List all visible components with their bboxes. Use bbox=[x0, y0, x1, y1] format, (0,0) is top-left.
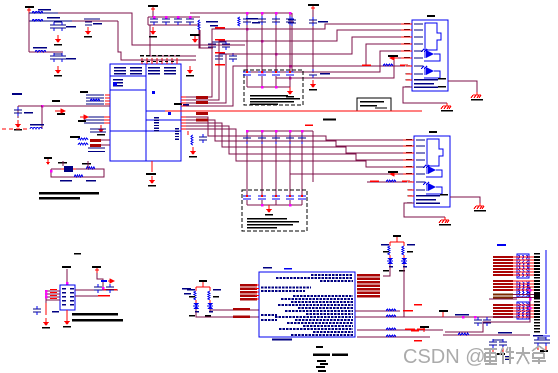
resistor R30 bbox=[458, 333, 469, 335]
esd diode J2-2 bbox=[423, 182, 442, 194]
label C5 bbox=[93, 23, 102, 25]
shield net text J1 bbox=[414, 79, 438, 81]
ground bbox=[97, 125, 105, 136]
capacitor grid2 bbox=[272, 135, 280, 144]
tvs diodes grid2 bbox=[243, 195, 251, 199]
net arrow bbox=[80, 115, 88, 119]
capacitor C32 bbox=[309, 69, 317, 78]
net label bbox=[305, 125, 313, 127]
label L5 bbox=[30, 124, 44, 126]
wire bbox=[312, 10, 314, 73]
wire bus A1 bbox=[181, 24, 412, 97]
wire bbox=[66, 269, 68, 285]
suppressor box 2 (dashed) bbox=[242, 190, 307, 231]
capacitor C5 bbox=[84, 19, 100, 25]
capacitor C4 bbox=[58, 53, 66, 62]
label U5 bottom edge bbox=[272, 339, 292, 341]
ferrite bead FB2 bbox=[90, 144, 101, 147]
led LED1 bbox=[401, 255, 407, 267]
resistor array zigzag bbox=[519, 303, 529, 318]
resistor R1 bbox=[238, 17, 240, 26]
net labels U5 right bbox=[357, 274, 380, 276]
wire bus A3 bbox=[181, 37, 412, 103]
label bbox=[252, 22, 260, 24]
net labels bus A bbox=[215, 27, 225, 29]
wire bbox=[54, 21, 62, 23]
ground J1 shield bbox=[471, 92, 483, 101]
termination net row bbox=[493, 262, 540, 264]
capacitor C20 bbox=[14, 107, 22, 116]
label bbox=[58, 162, 67, 164]
wire bus B2 bbox=[181, 120, 414, 146]
pin wires U1 left cluster D bbox=[88, 147, 105, 148]
label bbox=[183, 104, 189, 105]
capacitor C31 bbox=[288, 17, 296, 26]
note text box1 bbox=[250, 95, 288, 97]
pin name text U5 interior bbox=[311, 274, 353, 276]
capacitor C16 bbox=[215, 53, 223, 62]
wire bbox=[493, 339, 503, 341]
capacitor C40 bbox=[199, 134, 207, 143]
wire bbox=[72, 20, 118, 22]
wire bbox=[18, 105, 42, 107]
capacitor C62 bbox=[489, 339, 497, 348]
wire bbox=[97, 273, 103, 288]
ferrite bead FB1 bbox=[90, 139, 101, 142]
wire crystal loop bbox=[51, 169, 104, 177]
logic square U1c bbox=[168, 112, 171, 115]
wire U3 out2 bbox=[75, 295, 110, 297]
resistor LED2-R1 bbox=[194, 291, 196, 300]
wire bus A2 bbox=[181, 30, 412, 100]
capacitor C64 bbox=[534, 337, 542, 346]
label bbox=[323, 119, 336, 121]
wire grid2 rail bbox=[247, 130, 313, 132]
power label LED1 bbox=[393, 235, 401, 237]
net labels U3 left bbox=[50, 289, 57, 290]
net arrow bbox=[55, 109, 65, 113]
chassis ground U5 bbox=[313, 346, 348, 372]
pin labels J1 bbox=[404, 23, 410, 25]
wire LED2 left bbox=[196, 312, 251, 317]
wire J2 shield bbox=[450, 197, 480, 203]
resistor array zigzag bbox=[519, 282, 529, 296]
label L1 bbox=[38, 9, 51, 11]
labels LED1 bottom bbox=[389, 266, 393, 268]
inductor L3 bbox=[35, 51, 46, 53]
power flag VIN bbox=[25, 6, 34, 13]
inductor L1 bbox=[32, 12, 43, 14]
ground bbox=[42, 318, 50, 329]
inductor L5 bbox=[30, 128, 42, 130]
esd diode J2-1 bbox=[423, 165, 442, 177]
svg-text:CSDN @: CSDN @ bbox=[403, 346, 486, 368]
wire center tap bbox=[443, 334, 530, 336]
label bbox=[210, 25, 218, 27]
capacitor grid2 bbox=[286, 135, 294, 144]
ic U3 body bbox=[60, 285, 75, 310]
termination net row bbox=[493, 283, 540, 285]
label bbox=[438, 78, 446, 80]
ground bbox=[148, 176, 156, 187]
wire bbox=[150, 25, 196, 56]
wire bbox=[219, 53, 233, 55]
wire bbox=[41, 128, 43, 130]
net label bbox=[370, 181, 379, 183]
pin stubs U1 top bbox=[141, 58, 143, 64]
wire LED2 top bbox=[202, 282, 204, 287]
net stubs left bbox=[414, 304, 422, 306]
wire bus A6 bbox=[276, 58, 412, 78]
capacitor C14 bbox=[208, 41, 216, 50]
termination net row bbox=[493, 265, 540, 267]
label C3 bbox=[66, 58, 76, 60]
power flag U3b bbox=[92, 266, 101, 273]
power flag AVDD bbox=[190, 34, 200, 43]
ground arrow box2 bbox=[265, 205, 273, 216]
capacitor C11 bbox=[162, 16, 170, 25]
label bbox=[86, 180, 96, 182]
wire U5 right r3 bbox=[357, 329, 443, 331]
wire bus B3 bbox=[181, 123, 414, 153]
resistor R9 bbox=[74, 175, 83, 177]
wire tvs common bbox=[247, 86, 290, 88]
wire bbox=[63, 161, 88, 169]
wire net to U1 pin bbox=[42, 105, 110, 107]
net label bbox=[196, 101, 208, 104]
ground bbox=[63, 317, 71, 328]
wire bbox=[28, 13, 30, 52]
power label LED2 bbox=[199, 280, 207, 282]
wire grid1 top rail bbox=[190, 12, 290, 14]
capacitor grid2 bbox=[298, 135, 306, 144]
wire bus B4 bbox=[181, 126, 414, 160]
capacitor C10 bbox=[150, 16, 158, 25]
label L3 bbox=[33, 47, 47, 49]
resistor array RN1 body bbox=[517, 254, 529, 278]
pin name text U5 interior left rows bbox=[261, 288, 311, 292]
wire bus B1 bbox=[181, 117, 414, 140]
wire bbox=[29, 20, 72, 22]
connector J1 body bbox=[412, 20, 448, 91]
resistor R2 bbox=[198, 20, 200, 30]
wire bbox=[17, 106, 19, 118]
resistor R8 bbox=[86, 167, 95, 169]
label bbox=[388, 171, 398, 173]
capacitor C17 bbox=[229, 53, 237, 62]
capacitor grid bbox=[243, 16, 251, 25]
resistor LED2-R2 bbox=[208, 291, 210, 300]
stub bbox=[493, 348, 503, 352]
termination net row brown bbox=[493, 297, 540, 299]
note text U3 line2 bbox=[72, 319, 123, 321]
wire bbox=[148, 11, 213, 48]
wire U5 right r4 bbox=[357, 336, 430, 338]
net arrow bbox=[390, 172, 398, 176]
power flag XT bbox=[44, 157, 52, 165]
ground bbox=[189, 147, 197, 158]
resistor R7 bbox=[78, 143, 88, 145]
wire J1 shield bbox=[448, 81, 477, 92]
power flag VDD bbox=[148, 5, 158, 11]
wire bbox=[54, 53, 62, 55]
ground bbox=[14, 120, 22, 131]
pin wires U1 left cluster C bbox=[90, 128, 106, 129]
resistor array zigzag bbox=[519, 255, 529, 277]
pin wires U3 left bbox=[46, 291, 60, 303]
crystal Y1 bbox=[61, 166, 76, 172]
termination net row g3 bbox=[493, 304, 540, 306]
labels LED2 left bbox=[182, 288, 191, 290]
termination net row bbox=[493, 289, 540, 291]
label bbox=[388, 55, 398, 57]
label bbox=[533, 335, 543, 337]
connector J3 pin column bbox=[534, 253, 540, 254]
net label LED2b bbox=[233, 316, 250, 319]
shield net text J2 bbox=[416, 195, 440, 197]
capacitor grid bbox=[286, 16, 294, 25]
label bbox=[540, 350, 548, 352]
label bbox=[505, 356, 510, 360]
pin stub below U1 bbox=[151, 161, 153, 172]
termination net row brown bbox=[493, 294, 540, 296]
resistor array RN3 body bbox=[517, 302, 529, 319]
label bbox=[320, 73, 330, 75]
wire LED1 left bbox=[383, 267, 390, 276]
termination net row bbox=[493, 259, 540, 261]
label bbox=[438, 86, 446, 88]
resistor array RN2 body bbox=[517, 281, 529, 297]
esd diode J1-1 bbox=[421, 49, 440, 61]
capacitor C2 bbox=[58, 22, 66, 31]
pin stubs U1 right bus B bbox=[181, 117, 186, 118]
wire LED1 right bbox=[404, 267, 440, 317]
resistor R12 bbox=[191, 135, 193, 145]
wire U5 right r1 bbox=[355, 310, 400, 312]
label J1 bbox=[427, 15, 435, 17]
net labels U5 left bbox=[240, 284, 257, 286]
wire bus B6 bbox=[290, 173, 414, 175]
resistor R5 bbox=[90, 99, 100, 101]
label R2 bbox=[206, 21, 218, 23]
ground bbox=[309, 80, 317, 91]
wire tvs common 2 bbox=[247, 204, 302, 206]
label R1 bbox=[246, 18, 258, 20]
wire U5 right r2 bbox=[355, 316, 404, 318]
label U3 bbox=[52, 311, 59, 313]
resistor R20 bbox=[386, 309, 396, 311]
net label bbox=[362, 65, 371, 67]
termination net row bbox=[493, 268, 540, 270]
connector J3 body line2 bbox=[537, 335, 550, 337]
resistor R6 bbox=[78, 138, 88, 140]
wire bbox=[212, 41, 226, 43]
ground J2 shield bbox=[474, 203, 486, 212]
wire resistor net J2 bbox=[367, 181, 414, 183]
termination net row bbox=[493, 274, 540, 276]
ground bbox=[84, 27, 92, 38]
capacitor bbox=[483, 317, 491, 326]
capacitor C1 bbox=[50, 22, 58, 31]
net arrow U3 bbox=[101, 280, 107, 282]
wire bbox=[121, 59, 177, 61]
labels LED2 bbox=[187, 289, 195, 290]
termination net row bbox=[493, 286, 540, 288]
note text bbox=[360, 101, 384, 103]
led LED1 bbox=[387, 255, 393, 267]
capacitor C52 bbox=[106, 284, 114, 293]
note text box2 bbox=[247, 218, 287, 220]
ground bbox=[54, 66, 62, 77]
wire bbox=[251, 310, 259, 317]
logic square U1 bbox=[113, 82, 117, 86]
logic square U1b bbox=[152, 91, 155, 94]
net label bbox=[196, 96, 208, 99]
termination net row g3 bbox=[493, 316, 540, 318]
wire bbox=[58, 13, 245, 45]
termination net row bbox=[493, 271, 540, 273]
net labels right bbox=[403, 310, 413, 312]
wire bbox=[29, 12, 58, 14]
termination net row g3 bbox=[493, 310, 540, 312]
wire bus B5 bbox=[181, 129, 414, 167]
power stub bbox=[439, 310, 448, 317]
wire J1 gnd bbox=[403, 87, 447, 103]
led LED2 bbox=[207, 300, 213, 312]
pin marks U3 interior bbox=[62, 288, 66, 289]
resistor R22 bbox=[386, 328, 396, 330]
red net rail bbox=[165, 110, 422, 112]
net labels right2 bbox=[405, 329, 415, 331]
resistor LED1-R2 bbox=[402, 246, 404, 255]
wire blue stub bbox=[146, 110, 165, 112]
net stub dashed bbox=[2, 128, 30, 130]
termination net row g3 bbox=[493, 313, 540, 315]
pin stubs U1 right bus A bbox=[181, 97, 186, 98]
capacitor C3 bbox=[50, 53, 58, 62]
capacitor C50 bbox=[33, 306, 41, 315]
wire U3 out1 bbox=[75, 289, 118, 291]
wire magnetics center bbox=[440, 316, 517, 318]
note box bbox=[357, 98, 391, 111]
resistor R21 bbox=[386, 315, 396, 317]
label bbox=[70, 136, 80, 138]
ground J1 bbox=[441, 103, 453, 112]
pin labels J2 bbox=[406, 139, 412, 141]
capacitor grid bbox=[272, 16, 280, 25]
tvs diodes grid1 bbox=[243, 71, 251, 75]
pin number labels U1 top row2 bbox=[141, 61, 144, 62]
text block U1 core2 bbox=[175, 128, 179, 129]
label U5 bbox=[263, 267, 272, 269]
label bbox=[146, 173, 156, 175]
component bbox=[12, 93, 22, 95]
label J2 bbox=[429, 131, 437, 133]
label C1 bbox=[66, 26, 76, 28]
connector J3 body line bbox=[545, 250, 547, 334]
label bbox=[24, 112, 33, 114]
wire J3 a bbox=[445, 287, 530, 332]
wire bus A5 bbox=[247, 51, 412, 72]
watermark chinese glyphs bbox=[484, 346, 546, 364]
junction dots grid1 bbox=[246, 28, 248, 30]
wire bbox=[45, 303, 47, 315]
wire bus A4 bbox=[181, 44, 412, 106]
wire J2 gnd bbox=[404, 203, 445, 217]
title text line2 bbox=[39, 197, 80, 199]
ground arrow box1 bbox=[286, 87, 294, 98]
labels LED1 bbox=[381, 244, 389, 245]
label L2 bbox=[47, 17, 60, 19]
wire resistor net J1 bbox=[352, 65, 412, 67]
wire bbox=[29, 51, 63, 53]
capacitor C51 bbox=[94, 284, 102, 293]
pin wires U1 left cluster B bbox=[84, 116, 104, 117]
termination net row g3 bbox=[493, 307, 540, 309]
capacitor grid2 bbox=[243, 135, 251, 144]
inductor L2 bbox=[32, 20, 43, 22]
ic U1 internal partition bbox=[110, 64, 181, 161]
label U5b bbox=[284, 268, 292, 270]
resistor pulldown bbox=[187, 131, 189, 135]
ic U1 main controller bbox=[110, 64, 181, 161]
label bbox=[497, 353, 505, 355]
led LED2 bbox=[193, 300, 199, 312]
title text line1 bbox=[39, 192, 99, 194]
label bbox=[318, 21, 328, 23]
capacitor C65 bbox=[542, 337, 550, 346]
text block U1 core bbox=[154, 117, 159, 118]
capacitor C30 bbox=[309, 17, 317, 26]
wire bbox=[538, 337, 546, 339]
ground bbox=[54, 35, 62, 46]
wire bbox=[200, 30, 213, 48]
resistor R11 bbox=[386, 180, 396, 182]
power stub2 bbox=[420, 326, 429, 332]
label bbox=[440, 194, 448, 196]
wire bbox=[118, 21, 196, 60]
power flag V5 bbox=[308, 4, 319, 10]
esd diode J1-2 bbox=[421, 66, 440, 78]
ic U5 body bbox=[259, 272, 355, 337]
labels LED2 bottom bbox=[195, 311, 199, 313]
capacitor C63 bbox=[499, 339, 507, 348]
label bbox=[80, 91, 88, 93]
capacitor grid bbox=[258, 16, 266, 25]
pin number labels U1 top bbox=[140, 55, 144, 56]
net arrow bbox=[390, 56, 398, 60]
wire top rail bbox=[153, 16, 155, 18]
junction dots U3 left bbox=[45, 290, 47, 292]
wire bbox=[41, 106, 43, 129]
pin name text rows U1 top bbox=[114, 67, 126, 68]
label bbox=[82, 163, 91, 165]
wire bbox=[291, 13, 293, 72]
resistor R23 bbox=[386, 335, 396, 337]
wire LED2 right bbox=[210, 309, 251, 310]
net labels U3 right bbox=[104, 289, 117, 291]
net label busB1 bbox=[196, 112, 208, 115]
ground bbox=[186, 66, 194, 77]
labels magnetics bbox=[455, 314, 469, 316]
wire J3 b bbox=[489, 298, 517, 300]
wire grid2 verticals bbox=[247, 131, 313, 196]
net label LED2a bbox=[233, 308, 250, 311]
pin wires U1 left cluster A bbox=[86, 94, 104, 95]
pin stub U3 bottom bbox=[66, 310, 68, 317]
capacitor C15 bbox=[222, 41, 230, 50]
usb shell symbol J1 bbox=[425, 23, 441, 50]
